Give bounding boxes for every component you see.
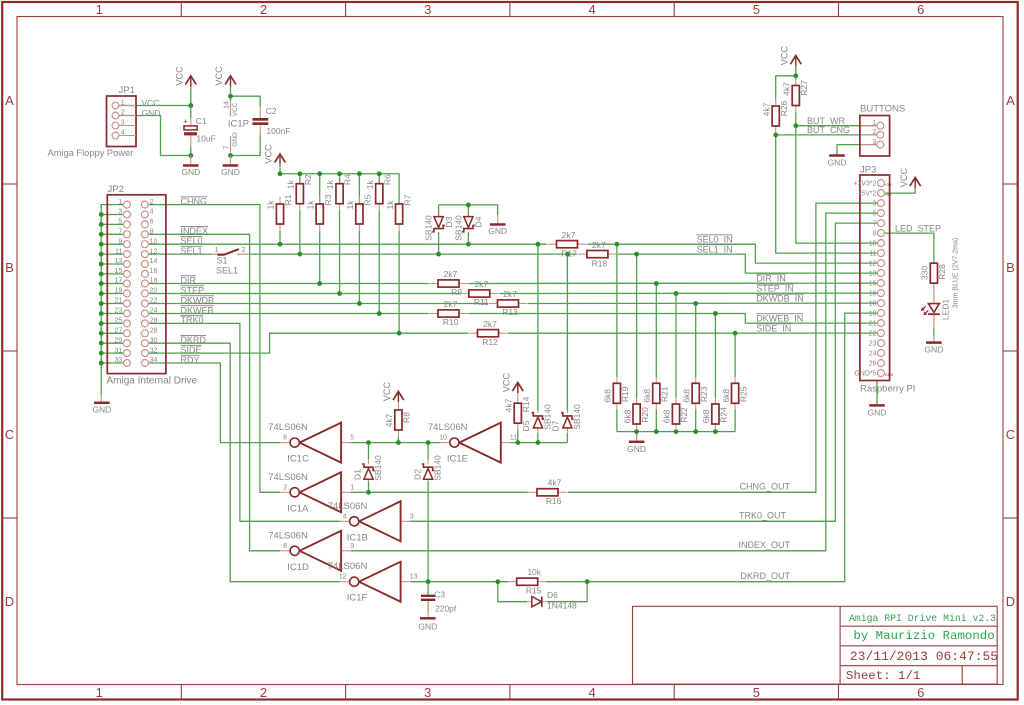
- svg-text:DKWDB_IN: DKWDB_IN: [756, 294, 804, 304]
- svg-text:R27: R27: [799, 80, 809, 96]
- svg-text:1k: 1k: [266, 200, 276, 210]
- inverter IC1C 74LS06N: [268, 422, 354, 465]
- svg-text:R21: R21: [660, 386, 670, 402]
- svg-text:11: 11: [115, 248, 122, 255]
- wire D1 bottom to IC1A input line: [368, 481, 370, 492]
- svg-text:7: 7: [873, 220, 877, 227]
- inverter IC1E 74LS06N: [428, 422, 517, 465]
- svg-text:R23: R23: [699, 386, 709, 402]
- resistor R13 2k7: [489, 303, 498, 305]
- svg-text:C2: C2: [266, 106, 277, 116]
- svg-text:16: 16: [150, 268, 158, 275]
- wire net TRK0_OUT IC1B input to JP3 pin7: [410, 223, 877, 521]
- svg-text:3: 3: [872, 139, 876, 146]
- wire D5 top to SEL0: [537, 244, 539, 410]
- wire VCC arrow to C1 top node: [190, 85, 192, 118]
- connector JP3 Raspberry PI: [853, 165, 893, 381]
- svg-text:33: 33: [115, 357, 123, 364]
- wire D6 bypass left: [498, 582, 527, 602]
- svg-text:R15: R15: [526, 586, 542, 596]
- resistor R11 2k7: [460, 293, 469, 295]
- svg-text:D2: D2: [412, 469, 422, 480]
- connector BUTTONS: [860, 104, 905, 157]
- wire JP3 +5V to VCC arrow: [885, 187, 916, 194]
- svg-text:6k8: 6k8: [681, 389, 691, 403]
- svg-text:R7: R7: [402, 194, 412, 205]
- svg-text:15: 15: [869, 280, 877, 287]
- resistor R8 4k7 pullup: [384, 400, 412, 437]
- svg-text:R26: R26: [779, 100, 789, 116]
- svg-text:6k8: 6k8: [603, 389, 613, 403]
- wire R3 bottom to DIR: [319, 231, 321, 284]
- svg-text:6: 6: [917, 2, 924, 17]
- wire D4 top stub: [467, 205, 469, 216]
- wire net SEL1 from JP2 to S1: [148, 253, 211, 255]
- svg-text:13: 13: [410, 574, 418, 581]
- wire JP3 GND pin to GND symbol: [876, 381, 878, 406]
- svg-text:R28: R28: [937, 264, 947, 280]
- svg-text:SEL1_IN: SEL1_IN: [697, 244, 733, 254]
- svg-text:R19: R19: [620, 386, 630, 402]
- svg-text:S1: S1: [217, 256, 228, 266]
- svg-text:2: 2: [283, 484, 287, 491]
- svg-text:23: 23: [869, 340, 877, 347]
- svg-text:SEL0: SEL0: [181, 236, 203, 246]
- resistor R9 2k7: [429, 283, 438, 285]
- svg-text:31: 31: [115, 347, 123, 354]
- svg-text:12: 12: [150, 248, 158, 255]
- svg-text:4: 4: [588, 685, 595, 700]
- diode D4 SB140: [453, 215, 483, 241]
- ground GND below BUTTONS pin3: [829, 154, 845, 157]
- svg-text:SEL1: SEL1: [216, 266, 238, 276]
- wire net CHNG_OUT R16 to JP3 pin3: [568, 203, 878, 492]
- svg-text:2: 2: [260, 685, 267, 700]
- svg-text:1k: 1k: [365, 179, 375, 189]
- svg-text:DKWDB: DKWDB: [181, 295, 215, 305]
- svg-text:17: 17: [115, 278, 123, 285]
- svg-text:2: 2: [242, 247, 246, 254]
- svg-text:C: C: [1006, 427, 1015, 442]
- svg-text:74LS06N: 74LS06N: [268, 422, 308, 433]
- svg-text:16: 16: [869, 290, 877, 297]
- resistor R4 1k: [325, 174, 353, 211]
- svg-text:9: 9: [350, 543, 354, 550]
- connector JP1: [107, 85, 137, 147]
- svg-text:Sheet: 1/1: Sheet: 1/1: [846, 669, 920, 683]
- svg-text:25: 25: [115, 318, 123, 325]
- svg-text:D: D: [1006, 594, 1015, 609]
- svg-text:SEL0_IN: SEL0_IN: [697, 234, 733, 244]
- resistor R7 1k: [385, 194, 413, 231]
- svg-text:by Maurizio Ramondo: by Maurizio Ramondo: [853, 629, 994, 643]
- svg-text:VCC: VCC: [142, 98, 160, 108]
- svg-text:STEP: STEP: [181, 285, 205, 295]
- svg-text:GND: GND: [885, 373, 894, 377]
- power VCC arrow above R1 bus: [275, 154, 286, 163]
- wire net DKRD_OUT IC1F input to R15: [410, 581, 508, 583]
- svg-text:3: 3: [424, 685, 431, 700]
- svg-text:6k8: 6k8: [642, 389, 652, 403]
- svg-text:21: 21: [115, 298, 123, 305]
- svg-text:R24: R24: [719, 407, 729, 423]
- wire R28 to LED1: [933, 284, 935, 304]
- resistor R10 2k7: [429, 313, 438, 315]
- resistor R21 6k8: [642, 377, 670, 409]
- svg-text:INDEX: INDEX: [181, 226, 209, 236]
- svg-text:4: 4: [150, 209, 154, 216]
- svg-text:74LS06N: 74LS06N: [428, 422, 468, 433]
- svg-text:R6: R6: [382, 174, 392, 185]
- svg-text:DKRD: DKRD: [181, 335, 207, 345]
- svg-text:7: 7: [118, 229, 122, 236]
- wire R2 top stub: [299, 174, 301, 184]
- resistor R20 6k8: [622, 398, 650, 430]
- svg-text:GND: GND: [418, 622, 437, 632]
- svg-text:LED_STEP: LED_STEP: [895, 224, 941, 234]
- svg-text:R3: R3: [323, 194, 333, 205]
- wire 6k8 array verticals: [617, 244, 735, 398]
- svg-text:330: 330: [920, 266, 930, 280]
- svg-text:1k: 1k: [325, 179, 335, 189]
- wire R3 top stub: [319, 174, 321, 204]
- svg-text:2: 2: [260, 2, 267, 17]
- svg-text:D1: D1: [353, 469, 363, 480]
- resistor R5 1k: [345, 194, 373, 231]
- wire JP2 odd pin stubs: [101, 215, 123, 364]
- svg-text:GND: GND: [488, 226, 507, 236]
- svg-text:3mm BLUE (2V7 2ma): 3mm BLUE (2V7 2ma): [953, 238, 960, 308]
- svg-text:DKWEB_IN: DKWEB_IN: [756, 313, 803, 323]
- svg-text:26: 26: [869, 360, 877, 367]
- svg-text:19: 19: [115, 288, 123, 295]
- switch S1: [211, 247, 250, 275]
- svg-text:R11: R11: [474, 297, 489, 307]
- svg-text:10: 10: [439, 435, 447, 442]
- power symbol IC1P: [223, 101, 249, 153]
- svg-text:BUTTONS: BUTTONS: [860, 104, 905, 115]
- ground GND below JP3: [869, 404, 885, 407]
- wire net BUT_WR R27 to BUTTONS pin1 and JP3 pin10: [796, 113, 878, 244]
- resistor R17 2k7: [548, 243, 557, 245]
- power VCC arrow above C1: [185, 76, 196, 85]
- svg-text:IC1C: IC1C: [287, 454, 309, 465]
- resistor R22 6k8: [662, 398, 690, 430]
- svg-text:D7: D7: [551, 420, 561, 431]
- svg-text:26: 26: [150, 318, 158, 325]
- svg-text:2k7: 2k7: [444, 269, 458, 279]
- svg-text:R4: R4: [343, 174, 353, 185]
- diode D2 SB140: [412, 455, 442, 482]
- svg-text:GND: GND: [221, 167, 240, 177]
- resistor R18 2k7: [578, 253, 587, 255]
- svg-text:18: 18: [869, 300, 877, 307]
- svg-text:74LS06N: 74LS06N: [328, 561, 368, 572]
- svg-text:22: 22: [150, 298, 158, 305]
- wire R2 bottom to SEL1: [299, 211, 301, 255]
- svg-text:5: 5: [753, 2, 760, 17]
- svg-text:11: 11: [869, 250, 876, 257]
- ground GND below 6k8 array: [627, 436, 646, 454]
- resistor R1 1k: [266, 194, 294, 231]
- wire net DKWDB from JP2 to R13: [148, 303, 488, 305]
- svg-text:DKWEB: DKWEB: [181, 305, 214, 315]
- ground GND below LED1: [926, 341, 942, 344]
- svg-text:VCC: VCC: [214, 66, 224, 86]
- wire IC1P pin14 to C2 top: [231, 96, 261, 107]
- svg-text:10k: 10k: [527, 567, 541, 577]
- svg-text:IC1E: IC1E: [447, 454, 468, 465]
- svg-text:6k8: 6k8: [662, 409, 672, 423]
- wire D4 bottom to SEL0: [467, 232, 469, 244]
- wire net DKRD_OUT R15 to JP3 pin19: [547, 313, 878, 582]
- svg-text:Amiga Floppy Power: Amiga Floppy Power: [48, 148, 134, 158]
- svg-text:21: 21: [869, 320, 877, 327]
- wire net SIDE_IN from R12 to JP3 pin22: [508, 332, 877, 334]
- wire net SEL0_IN from R17 to JP3 pin12: [587, 244, 877, 263]
- svg-text:CHNG: CHNG: [181, 196, 208, 206]
- svg-text:29: 29: [115, 337, 123, 344]
- svg-text:R17: R17: [561, 248, 577, 258]
- wire D2 top stub: [427, 443, 429, 459]
- wire VCC arrow to IC1P pin14: [230, 85, 232, 101]
- wire net SEL1 from S1 to R18: [249, 253, 577, 255]
- wire JP1 pin1 to VCC node: [119, 105, 191, 107]
- svg-text:D3: D3: [444, 216, 454, 227]
- wire net DIR from JP2 to R9: [148, 283, 428, 285]
- wire net SIDE from JP2 to R12: [148, 333, 468, 353]
- wire C3 bottom to GND: [427, 601, 429, 612]
- svg-text:220pf: 220pf: [435, 604, 457, 614]
- svg-text:3: 3: [121, 120, 125, 127]
- svg-text:JP3: JP3: [860, 165, 876, 176]
- svg-text:D6: D6: [547, 590, 558, 600]
- svg-text:1N4148: 1N4148: [547, 601, 577, 611]
- power VCC arrow above R14: [512, 383, 523, 392]
- svg-text:4: 4: [343, 513, 347, 520]
- svg-text:R25: R25: [738, 386, 748, 402]
- wire net DIR_IN from R9 to JP3 pin15: [469, 282, 878, 284]
- wire D1 top stub: [368, 443, 370, 459]
- svg-text:4k7: 4k7: [504, 398, 514, 412]
- svg-text:D: D: [5, 594, 14, 609]
- wire LED1 to GND: [933, 329, 935, 337]
- power VCC arrow above R8: [393, 392, 404, 401]
- wire D2 bottom to DKRD_OUT line: [427, 481, 429, 582]
- wire JP1 pin2 to GND node: [119, 116, 191, 156]
- svg-text:8: 8: [283, 543, 287, 550]
- svg-text:27: 27: [115, 328, 123, 335]
- svg-text:DIR_IN: DIR_IN: [756, 274, 786, 284]
- svg-text:14: 14: [150, 258, 158, 265]
- wire JP2 left pin bus to GND: [101, 205, 123, 395]
- svg-text:5: 5: [753, 685, 760, 700]
- wire R6 top stub: [378, 174, 380, 184]
- svg-text:4k7: 4k7: [761, 102, 771, 116]
- svg-text:19: 19: [869, 310, 877, 317]
- wire IC1E input line to R14 D5 D7: [511, 442, 568, 444]
- resistor R27 4k7: [782, 79, 810, 113]
- svg-text:13: 13: [869, 270, 877, 277]
- svg-text:2: 2: [150, 199, 154, 206]
- svg-text:18: 18: [150, 278, 158, 285]
- svg-text:34: 34: [150, 357, 158, 364]
- svg-text:C3: C3: [434, 590, 445, 600]
- svg-text:A: A: [1006, 93, 1015, 108]
- capacitor C1: [183, 116, 215, 147]
- svg-text:GND: GND: [232, 132, 239, 147]
- svg-text:100nF: 100nF: [266, 126, 290, 136]
- svg-text:2k7: 2k7: [592, 240, 606, 250]
- wire D7 bottom stub: [566, 433, 568, 443]
- resistor R26 4k7: [761, 99, 789, 133]
- svg-text:VCC: VCC: [232, 102, 239, 116]
- svg-text:IC1B: IC1B: [347, 532, 368, 543]
- svg-text:4: 4: [588, 2, 595, 17]
- resistor R15 10k: [508, 581, 517, 583]
- svg-text:2k7: 2k7: [444, 299, 458, 309]
- wire R1 bottom to SEL0: [279, 231, 281, 244]
- frame column ticks: [181, 2, 838, 700]
- svg-text:5: 5: [118, 219, 122, 226]
- svg-text:R8: R8: [402, 412, 412, 423]
- svg-text:10uF: 10uF: [196, 134, 215, 144]
- svg-text:TRK0: TRK0: [181, 315, 204, 325]
- wire net RDY from JP2 to IC1C output: [148, 363, 280, 443]
- wire D7 top to SEL1: [566, 254, 568, 410]
- wire net SEL1_IN from R18 to JP3 pin13: [618, 254, 878, 273]
- wire BUTTONS pin3 to GND: [837, 145, 877, 156]
- wire net DKWEB_IN from R10 to JP3 pin21: [469, 314, 878, 324]
- svg-text:2k7: 2k7: [503, 289, 517, 299]
- svg-text:4: 4: [121, 130, 125, 137]
- wire net CHNG_OUT IC1A input to R16: [351, 491, 528, 493]
- wire net BUT_CNG R26 to BUTTONS pin2 and JP3 pin11: [776, 133, 878, 253]
- power VCC arrow above IC1P: [225, 76, 236, 85]
- resistor R16 4k7: [528, 491, 537, 493]
- inverter IC1B 74LS06N: [328, 501, 414, 544]
- wire R8 bottom stub: [397, 437, 399, 443]
- wire net DKWEB from JP2 to R10: [148, 313, 428, 315]
- svg-text:7: 7: [223, 145, 230, 149]
- svg-text:8: 8: [150, 229, 154, 236]
- power VCC arrow above R27: [790, 56, 801, 65]
- svg-text:SEL1: SEL1: [181, 246, 203, 256]
- svg-text:4k7: 4k7: [548, 477, 562, 487]
- wire net DKRD from JP2 to IC1F output: [148, 343, 339, 582]
- svg-text:15: 15: [115, 268, 123, 275]
- svg-text:13: 13: [115, 258, 123, 265]
- svg-text:+: +: [183, 117, 188, 126]
- diode D7 SB140: [551, 404, 583, 433]
- net labels at JP2: [181, 196, 215, 364]
- svg-text:C: C: [5, 427, 14, 442]
- frame row labels: [5, 93, 1015, 609]
- svg-text:10: 10: [869, 240, 877, 247]
- wire net TRK0 from JP2 to IC1B output: [148, 323, 339, 521]
- wire D3 bottom to SEL1: [438, 232, 440, 254]
- title block frame: [633, 606, 998, 684]
- svg-text:1: 1: [215, 247, 219, 254]
- inverter IC1A 74LS06N: [268, 472, 354, 515]
- svg-text:D4: D4: [474, 216, 484, 227]
- svg-text:2: 2: [872, 129, 876, 136]
- svg-text:Amiga RPI Drive Mini v2.3: Amiga RPI Drive Mini v2.3: [849, 613, 996, 624]
- svg-text:SB140: SB140: [433, 455, 443, 481]
- svg-text:R12: R12: [482, 337, 498, 347]
- svg-text:GND*5: GND*5: [854, 370, 876, 377]
- wire net INDEX from JP2 to IC1D output: [148, 234, 280, 551]
- svg-text:A: A: [5, 93, 14, 108]
- svg-text:R13: R13: [502, 307, 518, 317]
- wire R7 bottom to SIDE net: [398, 231, 400, 333]
- svg-text:JP2: JP2: [108, 184, 124, 195]
- svg-text:12: 12: [339, 574, 347, 581]
- wire R14 bottom stub: [517, 430, 519, 443]
- svg-text:5: 5: [873, 210, 877, 217]
- svg-text:BUT_CNG: BUT_CNG: [807, 125, 850, 135]
- LED LED1 3mm BLUE: [921, 238, 960, 343]
- svg-text:5: 5: [350, 435, 354, 442]
- svg-text:6k8: 6k8: [622, 409, 632, 423]
- svg-text:20: 20: [150, 288, 158, 295]
- wire net CHNG from JP2 to IC1A output: [148, 205, 280, 493]
- svg-text:R14: R14: [521, 396, 531, 412]
- resistor R28 330: [920, 263, 948, 283]
- power VCC arrow at JP3 +5V: [910, 178, 921, 187]
- wire 6k8 array bottom bus to GND: [617, 409, 735, 435]
- capacitor C3: [421, 590, 457, 614]
- wire C3 top stub: [427, 582, 429, 595]
- svg-text:28: 28: [150, 328, 158, 335]
- svg-text:INDEX_OUT: INDEX_OUT: [738, 540, 790, 550]
- resistor R2 1k: [286, 174, 314, 211]
- svg-text:R16: R16: [546, 496, 562, 506]
- svg-text:Amiga Internal Drive: Amiga Internal Drive: [107, 376, 198, 387]
- svg-text:STEP_IN: STEP_IN: [756, 284, 794, 294]
- wire R4 top stub: [339, 174, 341, 184]
- svg-text:SB140: SB140: [572, 404, 582, 430]
- svg-text:JP1: JP1: [119, 85, 135, 96]
- svg-text:VCC: VCC: [382, 381, 392, 401]
- svg-text:SB140: SB140: [424, 215, 434, 241]
- svg-text:+5V: +5V: [885, 193, 892, 197]
- frame row ticks: [2, 184, 1018, 518]
- wire C1 bottom to GND junction: [190, 147, 192, 155]
- svg-text:SIDE: SIDE: [181, 345, 202, 355]
- wire net SEL0 from JP2 to R17: [148, 243, 546, 245]
- svg-text:IC1P: IC1P: [228, 119, 249, 130]
- svg-text:R2: R2: [303, 174, 313, 185]
- connector JP2: [107, 184, 166, 374]
- svg-text:3: 3: [410, 513, 414, 520]
- svg-text:14: 14: [223, 101, 230, 109]
- svg-text:8: 8: [873, 230, 877, 237]
- svg-text:IC1A: IC1A: [287, 503, 309, 514]
- resistor R23 6k8: [681, 377, 709, 409]
- svg-text:1k: 1k: [385, 200, 395, 210]
- svg-text:R1: R1: [283, 194, 293, 205]
- svg-text:VCC: VCC: [264, 144, 274, 164]
- svg-text:22: 22: [869, 330, 877, 337]
- svg-text:IC1F: IC1F: [347, 593, 368, 604]
- ground GND below IC1P: [221, 156, 240, 178]
- svg-text:74LS06N: 74LS06N: [268, 472, 308, 483]
- svg-text:VCC: VCC: [899, 167, 909, 187]
- svg-text:R5: R5: [363, 194, 373, 205]
- svg-text:VCC: VCC: [779, 46, 789, 66]
- wire net STEP_IN from R11 to JP3 pin16: [500, 292, 878, 294]
